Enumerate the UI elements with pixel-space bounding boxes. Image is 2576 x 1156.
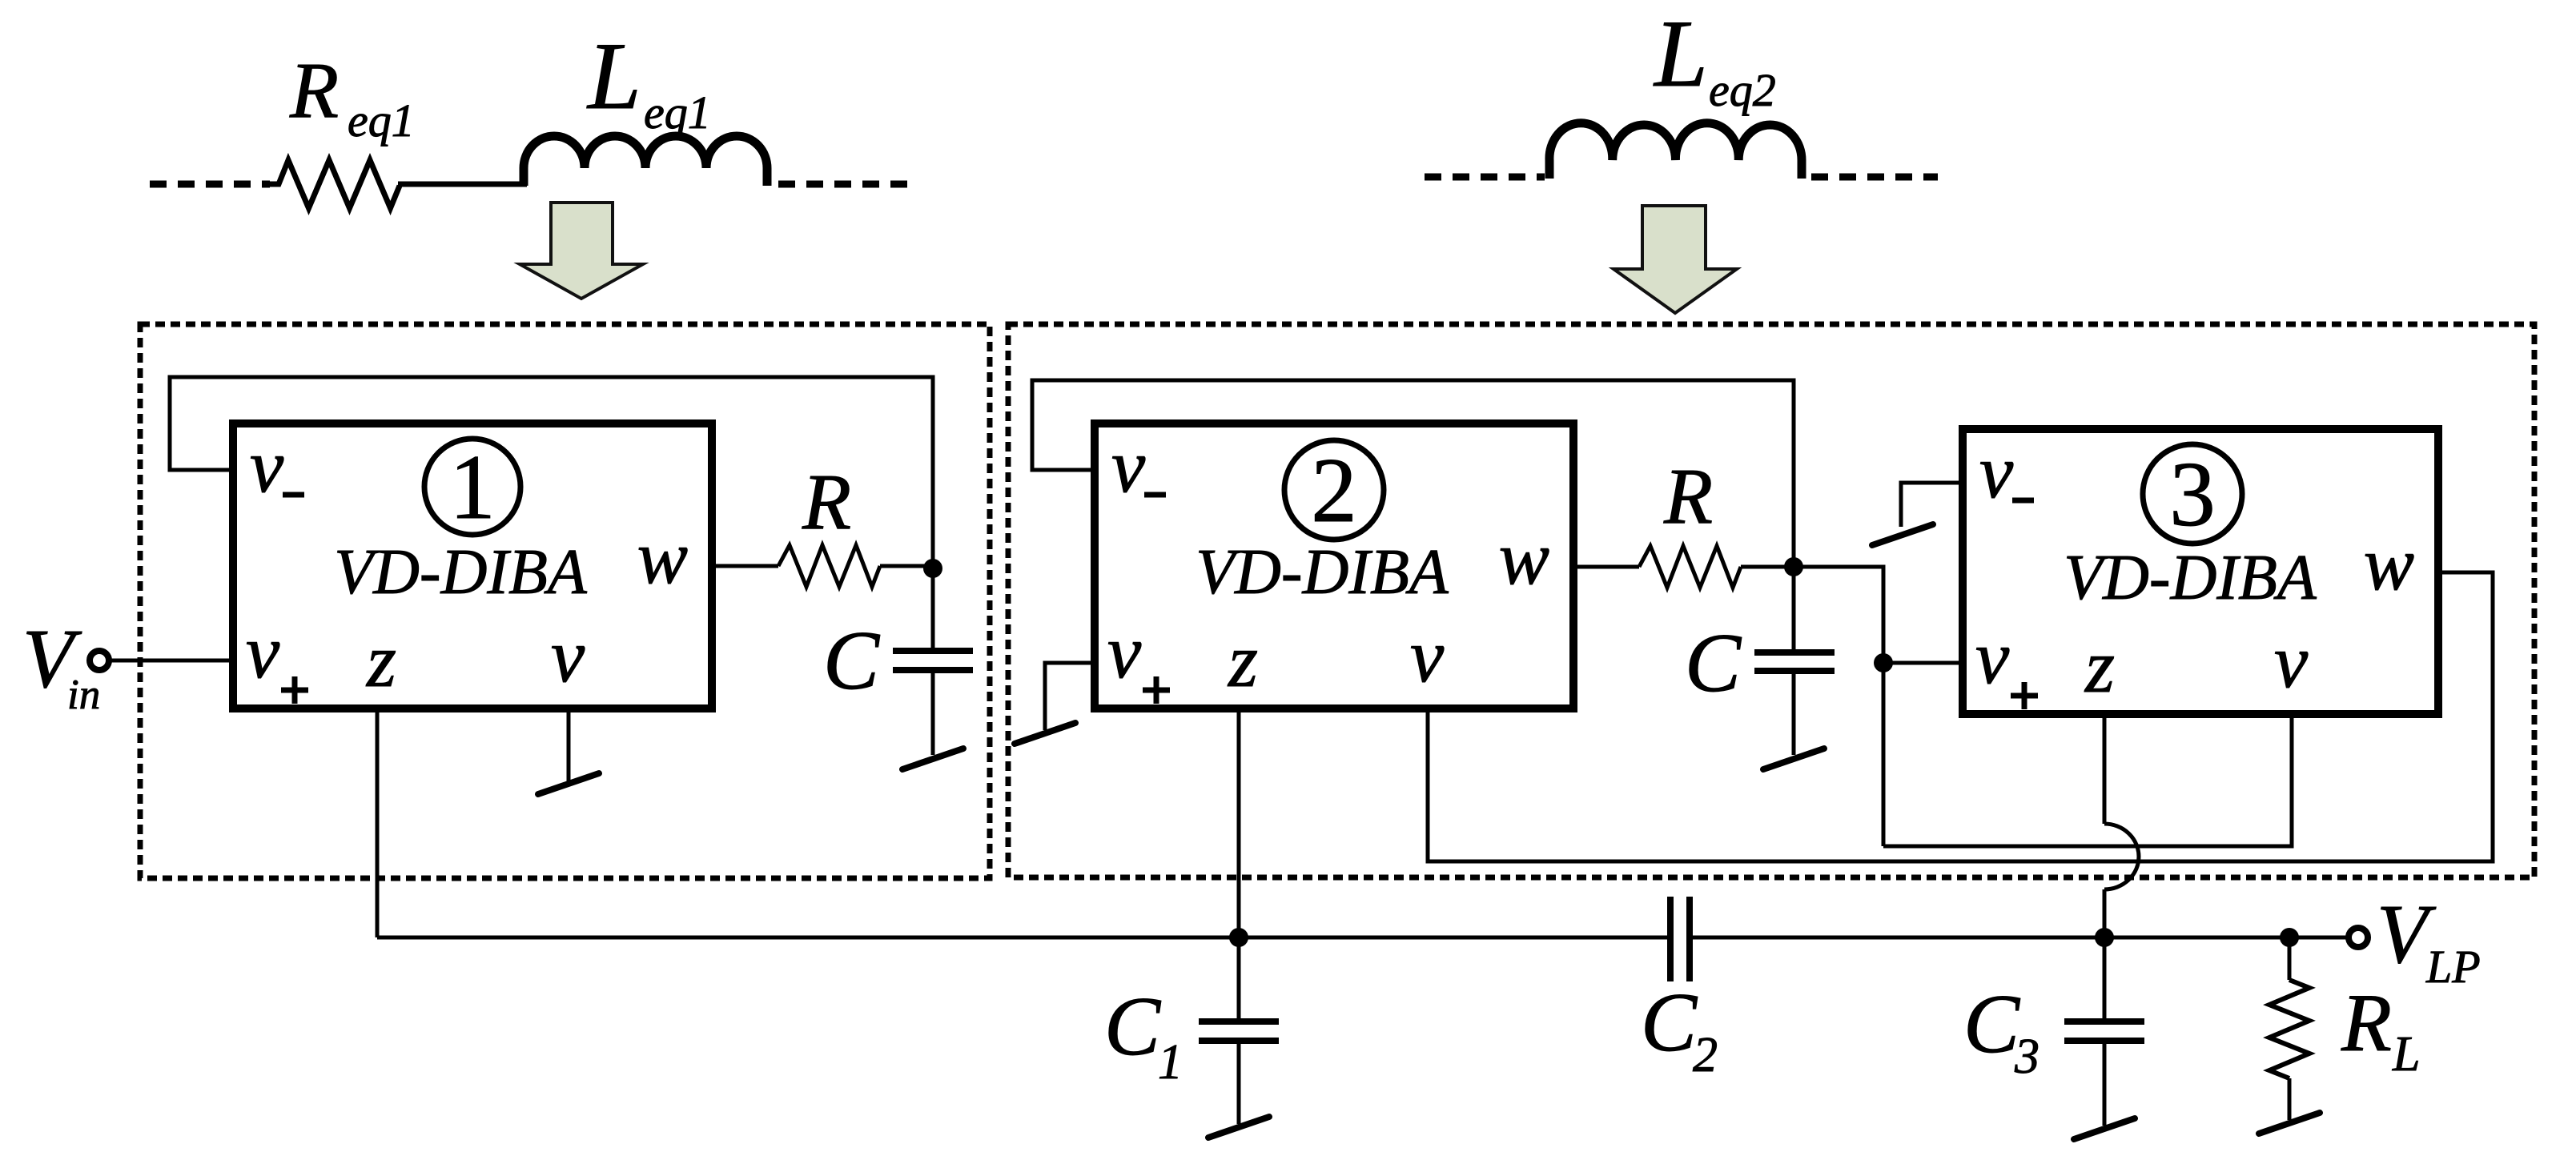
wire U3 v down and across <box>1883 714 2292 846</box>
ground (below C3) <box>2074 1118 2135 1139</box>
wire U1 v- feedback to node A <box>170 377 933 651</box>
svg-text:C: C <box>1685 616 1742 709</box>
svg-text:3: 3 <box>2014 1030 2040 1084</box>
node C junction dot <box>1874 653 1893 672</box>
svg-text:R: R <box>802 457 851 546</box>
svg-text:C: C <box>1641 975 1698 1069</box>
svg-text:L: L <box>586 22 641 129</box>
svg-text:2: 2 <box>1311 440 1357 541</box>
wire U2 v+ to ground <box>1045 663 1095 730</box>
svg-text:R: R <box>1663 452 1713 540</box>
capacitor C3 <box>2103 937 2107 1022</box>
node VLP terminal <box>2349 928 2368 947</box>
wire dashed lead right of Leq2 <box>1811 174 1938 181</box>
capacitor C (section 2) <box>1754 649 1835 656</box>
dashed box section 1 <box>140 324 990 878</box>
node Vin terminal <box>90 651 109 670</box>
wire bottom rail right of C2 <box>1690 936 2349 940</box>
svg-text:LP: LP <box>2425 941 2481 993</box>
op-amp U3 VD-DIBA block <box>1963 429 2438 714</box>
wire node B to v+ of U3 <box>1794 567 1883 846</box>
svg-text:eq2: eq2 <box>1709 64 1776 116</box>
svg-text:v: v <box>1410 613 1445 698</box>
svg-text:w: w <box>2364 521 2414 606</box>
wire U2 v down and across to U3 w <box>1428 572 2493 861</box>
wire U3 z down with hop <box>2103 714 2107 824</box>
wire U3 v- to ground <box>1901 483 1963 527</box>
node D junction dot <box>1229 928 1248 947</box>
wire U1 v down <box>567 708 571 784</box>
svg-text:v: v <box>246 609 280 694</box>
designator circle 2 of U2 <box>1284 440 1384 540</box>
wire U1 z down to bottom rail <box>376 708 380 937</box>
op-amp U2 VD-DIBA block <box>1095 423 1573 708</box>
node E junction dot <box>2095 928 2114 947</box>
svg-text:v: v <box>2274 619 2309 704</box>
dashed box section 2 <box>1008 324 2534 877</box>
ground (U2 v+) <box>1015 723 1075 744</box>
wire R to node A <box>880 564 933 568</box>
arrow block 1 <box>520 203 643 299</box>
wire C to ground <box>1792 671 1796 755</box>
arrow block 2 <box>1614 206 1737 313</box>
svg-text:VD-DIBA: VD-DIBA <box>334 537 588 608</box>
ground (U3 v-) <box>1872 524 1933 545</box>
svg-text:2: 2 <box>1693 1028 1718 1082</box>
svg-text:1: 1 <box>1158 1035 1183 1090</box>
resistor R (section 2) <box>1639 546 1741 588</box>
wire node C to U3 v+ <box>1883 661 1963 665</box>
wire C to ground <box>931 670 935 755</box>
capacitor C1 <box>1237 937 1241 1022</box>
svg-text:C: C <box>1104 979 1162 1073</box>
ground (below RL) <box>2259 1113 2320 1134</box>
svg-text:C: C <box>1963 977 2021 1070</box>
svg-text:z: z <box>365 618 396 703</box>
svg-text:R: R <box>289 46 339 134</box>
capacitor C2 (series) <box>1667 897 1674 981</box>
wire U2 w lead <box>1573 565 1639 569</box>
ground (below C section 2) <box>1763 749 1824 769</box>
wire U2 z down to bottom rail <box>1237 708 1241 937</box>
svg-text:eq1: eq1 <box>644 86 711 138</box>
ground (below C section 1) <box>902 749 963 769</box>
svg-text:w: w <box>1499 516 1549 600</box>
svg-text:R: R <box>2341 977 2392 1069</box>
svg-text:z: z <box>1227 618 1258 703</box>
svg-text:L: L <box>1653 0 1708 106</box>
wire dashed lead left of Leq2 <box>1425 174 1545 181</box>
inductor Leq1 <box>524 136 767 186</box>
designator circle 3 of U3 <box>2143 444 2242 544</box>
svg-text:w: w <box>637 515 688 600</box>
wire hop over crossing <box>2104 824 2139 889</box>
svg-text:in: in <box>67 672 100 718</box>
svg-text:z: z <box>2084 624 2115 708</box>
svg-text:eq1: eq1 <box>348 94 415 147</box>
resistor R (section 1) <box>778 545 880 587</box>
designator circle 1 of U1 <box>424 439 520 535</box>
inductor Leq2 <box>1549 123 1802 179</box>
svg-text:VD-DIBA: VD-DIBA <box>1196 537 1449 608</box>
wire R to node B <box>1741 565 1794 569</box>
wire between Req1 and Leq1 <box>398 182 527 187</box>
svg-text:VD-DIBA: VD-DIBA <box>2064 543 2317 613</box>
svg-text:v: v <box>1975 615 2010 700</box>
svg-text:v: v <box>250 423 284 508</box>
resistor RL <box>2288 937 2292 980</box>
wire Vin to v+ of U1 <box>109 659 233 663</box>
svg-text:v: v <box>1979 429 2014 514</box>
svg-text:v: v <box>551 613 585 698</box>
ground (below C1) <box>1208 1117 1269 1138</box>
wire U1 w lead <box>712 564 778 568</box>
wire U2 v- feedback to node B <box>1032 380 1794 652</box>
resistor Req1 <box>270 160 400 208</box>
svg-text:v: v <box>1107 609 1142 694</box>
wire bottom rail left of C2 <box>377 936 1670 940</box>
wire dashed lead right of Leq1 <box>778 181 913 188</box>
node A junction dot <box>923 559 942 578</box>
ground (below U1 v) <box>538 773 599 794</box>
svg-text:v: v <box>1111 423 1146 508</box>
node B junction dot <box>1784 557 1803 576</box>
wire dashed lead left of Req1 <box>150 181 270 188</box>
svg-text:L: L <box>2392 1027 2420 1082</box>
op-amp U1 VD-DIBA block <box>233 423 712 708</box>
capacitor C (section 1) <box>893 648 973 654</box>
svg-text:1: 1 <box>449 436 496 538</box>
svg-text:3: 3 <box>2169 444 2216 545</box>
node F junction dot <box>2280 928 2299 947</box>
svg-text:C: C <box>823 613 881 707</box>
